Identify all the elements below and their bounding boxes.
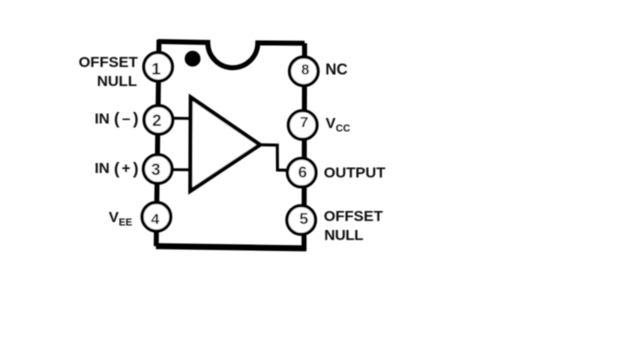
- label VCC (pin 7): [326, 115, 351, 134]
- pin 7: [288, 111, 317, 140]
- svg-text:V: V: [326, 115, 336, 132]
- svg-text:(: (: [114, 110, 120, 128]
- label IN (+) (pin 3): [95, 160, 139, 178]
- IC package U1: right edge: [302, 43, 308, 251]
- svg-text:7: 7: [300, 114, 308, 131]
- pin 3: [143, 155, 172, 184]
- label OFFSET NULL (pin 1): [79, 54, 138, 90]
- label VEE (pin 4): [109, 209, 133, 228]
- svg-text:1: 1: [151, 59, 160, 78]
- svg-text:IN: IN: [95, 160, 110, 177]
- svg-text:V: V: [109, 209, 119, 226]
- IC package U1: top edge with notch: [158, 42, 305, 68]
- pin 8: [290, 57, 319, 86]
- svg-text:8: 8: [301, 62, 309, 78]
- IC package U1: bottom edge: [156, 246, 306, 248]
- label OFFSET NULL (pin 5): [324, 208, 383, 244]
- wire pin2 to op-amp inverting input: [172, 117, 192, 120]
- svg-text:2: 2: [152, 112, 161, 130]
- pin-1 index dot: [185, 51, 201, 67]
- svg-text:+: +: [122, 160, 131, 177]
- svg-text:OFFSET: OFFSET: [79, 54, 138, 71]
- pin 5: [287, 206, 316, 235]
- pin 1: [144, 53, 173, 82]
- svg-text:5: 5: [299, 211, 308, 228]
- svg-text:CC: CC: [336, 123, 350, 134]
- label IN (-) (pin 2): [95, 110, 139, 128]
- svg-text:): ): [133, 160, 139, 178]
- IC package U1: left edge: [156, 40, 159, 246]
- svg-text:IN: IN: [95, 111, 110, 128]
- svg-text:–: –: [122, 111, 130, 128]
- svg-text:OUTPUT: OUTPUT: [324, 164, 386, 181]
- svg-text:6: 6: [298, 164, 307, 181]
- svg-text:NULL: NULL: [97, 73, 137, 90]
- pin 2: [144, 106, 173, 135]
- svg-text:): ): [133, 110, 139, 128]
- svg-text:EE: EE: [119, 217, 133, 228]
- svg-text:3: 3: [151, 161, 160, 179]
- svg-text:OFFSET: OFFSET: [324, 208, 383, 225]
- pin 4: [142, 203, 171, 232]
- svg-text:NC: NC: [325, 61, 347, 78]
- svg-text:4: 4: [151, 211, 160, 228]
- svg-text:(: (: [114, 160, 120, 178]
- wire pin3 to op-amp non-inverting input: [172, 168, 192, 171]
- wire op-amp output to pin6: [258, 145, 288, 171]
- pin 6: [287, 158, 316, 187]
- svg-text:NULL: NULL: [324, 227, 363, 244]
- op-amp A1 triangle: [190, 97, 260, 191]
